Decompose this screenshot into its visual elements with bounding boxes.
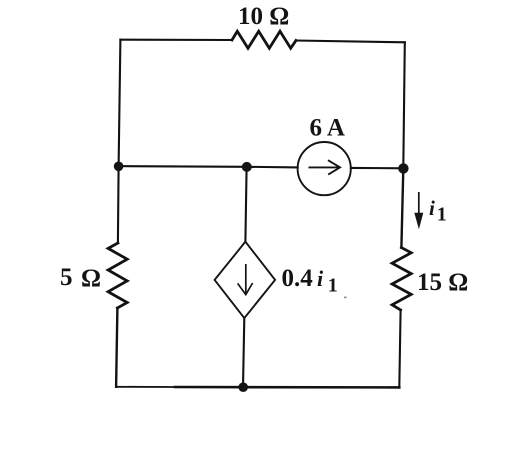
current source I1 6A circle: [298, 142, 351, 195]
svg-text:15 Ω: 15 Ω: [417, 269, 468, 296]
wire bottom horizontal right part: [175, 386, 399, 389]
wire middle vertical upper (node B to diamond): [245, 167, 246, 242]
wire left vertical middle segment: [117, 166, 120, 243]
node A left junction dot: [114, 162, 124, 172]
wire left vertical lower segment: [116, 308, 117, 387]
svg-text:10 Ω: 10 Ω: [238, 3, 289, 30]
svg-text:6 A: 6 A: [310, 115, 345, 142]
dependent source U1 0.4i1 diamond: [215, 242, 276, 318]
wire middle horizontal from node B to source: [247, 166, 298, 169]
svg-text:i: i: [317, 266, 324, 291]
wire top-left horizontal segment: [120, 39, 232, 41]
resistor R3 15 ohm zigzag: [392, 248, 411, 310]
node B middle junction dot: [242, 162, 252, 172]
node C right junction dot: [398, 163, 408, 173]
svg-text:1: 1: [437, 204, 447, 226]
wire left vertical upper segment: [119, 40, 121, 166]
stray mark speck: [344, 297, 347, 299]
resistor R1 10 ohm zigzag: [232, 31, 296, 48]
current arrow i1: [414, 192, 423, 229]
wire top-right horizontal segment: [296, 41, 405, 43]
wire right vertical upper segment: [403, 42, 405, 168]
wire bottom horizontal left part: [116, 386, 175, 388]
wire right vertical lower segment: [399, 310, 400, 387]
wire middle horizontal left of source: [119, 165, 247, 168]
svg-text:1: 1: [328, 275, 338, 297]
svg-text:0.4: 0.4: [282, 265, 314, 292]
resistor R2 5 ohm zigzag: [108, 243, 127, 308]
node D bottom junction dot: [238, 382, 248, 392]
svg-text:i: i: [429, 196, 435, 220]
svg-text:Ω: Ω: [81, 265, 101, 292]
wire middle horizontal right of source: [351, 167, 403, 170]
svg-text:5: 5: [60, 264, 73, 291]
wire right vertical middle segment: [401, 168, 403, 247]
wire middle vertical lower (diamond to bottom): [243, 318, 244, 387]
